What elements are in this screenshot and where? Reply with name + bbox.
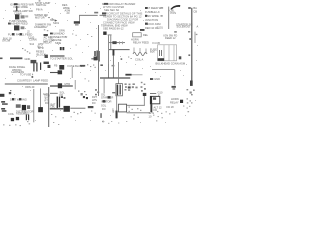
wire H11 bbox=[127, 104, 145, 106]
svg-text:TO STARTER SOL: TO STARTER SOL bbox=[50, 56, 73, 60]
node bars N4 bbox=[83, 96, 88, 99]
svg-text:CONN: CONN bbox=[29, 38, 37, 42]
svg-text:REL: REL bbox=[143, 33, 149, 37]
svg-text:B: B bbox=[113, 109, 115, 113]
svg-text:FD 18: FD 18 bbox=[167, 105, 175, 109]
splice dot 2 bbox=[10, 90, 11, 91]
label LR2 bbox=[150, 77, 160, 81]
speckle MC3 bbox=[72, 34, 92, 46]
wire stub V4 bbox=[194, 32, 196, 43]
dash left of SL1 bbox=[112, 92, 115, 93]
label block TL2 bbox=[13, 9, 33, 15]
speckle LC7 bbox=[85, 78, 90, 81]
label S2 bbox=[94, 12, 98, 14]
splice dot bbox=[32, 76, 34, 78]
wire H9 bbox=[70, 107, 85, 109]
relay K5 bbox=[180, 100, 183, 103]
svg-text:COIL A: COIL A bbox=[135, 58, 144, 62]
wire pair top tie bbox=[108, 34, 112, 35]
svg-text:MTR: MTR bbox=[65, 82, 71, 86]
junction left dash bbox=[91, 58, 94, 60]
horn relay box bbox=[118, 104, 126, 112]
fuse F1 bbox=[16, 6, 17, 11]
starter splice bbox=[64, 106, 70, 112]
arrow lead marks bbox=[45, 16, 53, 20]
speckle BD3 bbox=[129, 107, 142, 120]
label BL2 bbox=[8, 112, 15, 116]
battery cable bars bbox=[57, 97, 61, 109]
node square N1 bbox=[103, 32, 106, 35]
wire V7 bbox=[108, 64, 110, 78]
terminal strip TS2 bbox=[1, 108, 6, 112]
tick left of bus bbox=[188, 54, 190, 56]
label BD2 bbox=[112, 107, 115, 113]
dot right of V4 bbox=[196, 34, 198, 35]
branch ticks bbox=[119, 41, 123, 44]
coil leads bbox=[134, 48, 146, 54]
svg-text:S12: S12 bbox=[30, 42, 35, 46]
svg-text:GND: GND bbox=[25, 57, 31, 61]
wire top horizontal seg A bbox=[79, 14, 98, 16]
top dot TC bbox=[39, 0, 41, 1]
wire V15 bbox=[150, 104, 152, 112]
svg-text:ASSEMBLY: ASSEMBLY bbox=[16, 112, 30, 116]
label block TL1 bbox=[10, 2, 34, 9]
wire branch 1 bbox=[109, 42, 125, 44]
label BC2 bbox=[92, 95, 97, 105]
wire stub bold bbox=[113, 49, 115, 55]
wire V9 bbox=[118, 62, 120, 84]
connector block CB2 bbox=[158, 45, 177, 61]
connector cluster CC1 bbox=[125, 83, 138, 90]
label dots TR4 bbox=[157, 26, 164, 30]
wire V13 tall bbox=[48, 87, 50, 127]
svg-text:MOTOR: MOTOR bbox=[35, 16, 45, 20]
wire V5 bbox=[71, 67, 73, 78]
capacitor bars bbox=[26, 115, 29, 121]
terminal T8 bbox=[150, 78, 153, 80]
terminal T1 bbox=[145, 7, 148, 9]
svg-text:G101: G101 bbox=[157, 26, 164, 30]
wire H3 bbox=[50, 85, 73, 87]
row tick TR-a bbox=[161, 7, 164, 8]
svg-text:JUNCTION: JUNCTION bbox=[145, 18, 158, 22]
speckle LC5 bbox=[78, 91, 87, 96]
svg-text:DASH PANEL: DASH PANEL bbox=[9, 65, 26, 69]
svg-text:S201: S201 bbox=[53, 21, 60, 25]
coil W1 bbox=[133, 52, 147, 55]
label BL1 bbox=[10, 97, 27, 101]
label LL1 bbox=[9, 65, 26, 74]
terminal T4 bbox=[50, 33, 53, 35]
label BC1 bbox=[50, 102, 56, 108]
svg-text:12 G: 12 G bbox=[149, 111, 155, 115]
wire H2 bbox=[50, 72, 60, 74]
alternator box A1 bbox=[150, 96, 160, 104]
label S3 bbox=[59, 28, 65, 32]
dash above MR1 bbox=[174, 31, 177, 32]
wire H7 bbox=[150, 93, 156, 95]
svg-text:FD: FD bbox=[92, 101, 96, 105]
svg-text:SOLENOID: SOLENOID bbox=[177, 25, 191, 29]
wire V11 bbox=[33, 89, 35, 122]
label block TL3 bbox=[8, 19, 28, 25]
label dots TR2 bbox=[170, 9, 177, 16]
wire H4 bbox=[50, 92, 58, 94]
wire vertical V2 main right bus bbox=[191, 8, 193, 85]
terminal T10 bbox=[108, 96, 111, 99]
wire pair vertical bbox=[109, 35, 111, 78]
speckle LC6 bbox=[95, 89, 99, 95]
label column TR bbox=[145, 6, 162, 30]
bus bar B1 bbox=[50, 55, 65, 57]
lamp L1 bbox=[74, 21, 80, 25]
label block TC3 bbox=[34, 23, 51, 29]
svg-text:FLASHER FEED: FLASHER FEED bbox=[8, 22, 28, 26]
ignition module IM1 bbox=[11, 117, 19, 121]
label LC4 bbox=[60, 91, 66, 97]
label block TR3 bbox=[176, 22, 192, 28]
wire stub thin continuation bbox=[112, 56, 114, 79]
coil label bbox=[135, 58, 144, 62]
legend bold item 1 bbox=[104, 3, 108, 5]
label MC1 bbox=[50, 31, 67, 45]
svg-text:FD: FD bbox=[45, 101, 49, 105]
svg-text:BLK: BLK bbox=[150, 50, 155, 54]
label BR1 bbox=[149, 106, 163, 119]
svg-text:FEED 12: FEED 12 bbox=[165, 36, 176, 40]
connector C4 bbox=[44, 62, 49, 64]
speckle BC3 bbox=[51, 111, 96, 126]
node dash N3 bbox=[112, 65, 115, 67]
svg-text:STARTER: STARTER bbox=[101, 96, 113, 100]
svg-text:BLOCK: BLOCK bbox=[37, 52, 46, 56]
connector C2 bbox=[28, 35, 37, 41]
dot above dist bbox=[9, 92, 11, 94]
label MR2 bbox=[150, 47, 157, 53]
fuse block FB2 bbox=[59, 65, 64, 70]
wire K4 drop bbox=[143, 96, 145, 105]
svg-text:SEE PAGE 8A-12: SEE PAGE 8A-12 bbox=[103, 27, 124, 31]
bus wire H5 bbox=[100, 77, 130, 79]
label LL3 long row bbox=[17, 79, 48, 83]
svg-text:FEED WIRE: FEED WIRE bbox=[14, 5, 29, 9]
node dash N2 bbox=[100, 64, 103, 66]
splice S1 bbox=[50, 18, 60, 25]
label right of bus bbox=[193, 6, 197, 14]
svg-text:SEE SEC 8A: SEE SEC 8A bbox=[104, 8, 119, 12]
coil tick bbox=[121, 58, 123, 60]
pins MR bbox=[159, 50, 162, 56]
speckle BR3 bbox=[187, 98, 193, 103]
connector cluster CC2 bbox=[141, 82, 146, 92]
row tick TR-b bbox=[161, 15, 163, 16]
label D1 bbox=[16, 110, 34, 116]
ground G3 bbox=[190, 81, 193, 86]
wire H10 bbox=[127, 112, 150, 114]
svg-text:RELAY FEED: RELAY FEED bbox=[133, 40, 149, 44]
wire V12 bbox=[40, 89, 42, 111]
wire H6 bbox=[152, 69, 175, 71]
label LL2 bbox=[20, 73, 34, 77]
svg-text:MTR: MTR bbox=[38, 46, 44, 50]
speckle LR4 bbox=[187, 89, 195, 95]
label LC1 bbox=[54, 63, 84, 67]
motor M4 bbox=[58, 70, 63, 74]
svg-text:LAMP FEED: LAMP FEED bbox=[33, 79, 48, 83]
arrowhead bbox=[55, 19, 58, 21]
bottom dots TC bbox=[44, 29, 49, 31]
terminal T3 bbox=[145, 23, 148, 25]
svg-text:SWITCH: SWITCH bbox=[36, 3, 46, 7]
wire top horizontal seg B bbox=[100, 14, 107, 16]
speckle BR5 bbox=[153, 106, 190, 122]
module M2 bbox=[36, 50, 46, 57]
speckle MC4 bbox=[128, 57, 132, 60]
wire H8 bbox=[50, 108, 63, 110]
label ML4 bbox=[25, 57, 31, 61]
left edge bold dash bbox=[0, 94, 4, 97]
svg-text:SIDE: SIDE bbox=[55, 41, 61, 45]
label CB2 bottom bbox=[156, 61, 186, 65]
branch connector bbox=[112, 41, 116, 44]
terminal T11 bbox=[103, 100, 106, 103]
connector pins P1 bbox=[36, 8, 43, 12]
terminal T7 bbox=[80, 65, 85, 67]
solenoid SL1 bbox=[116, 84, 123, 96]
resistor ladder R1 bbox=[62, 3, 70, 15]
legend corner dash bbox=[140, 29, 145, 31]
legend bold item 2 bbox=[102, 12, 106, 14]
battery cable swoosh bbox=[171, 5, 181, 10]
wire diagonal speckle bbox=[22, 48, 30, 54]
speckle BL4 bbox=[3, 121, 30, 126]
svg-text:COURTESY: COURTESY bbox=[17, 79, 32, 83]
junction block J1 bbox=[94, 51, 100, 62]
svg-text:FUSIBLE LK: FUSIBLE LK bbox=[145, 10, 160, 14]
solenoid SL2 bbox=[38, 107, 43, 112]
dots under H9 bbox=[74, 112, 82, 114]
label K3 bbox=[43, 36, 54, 45]
terminal dash TL1 bbox=[14, 3, 18, 5]
cable top marks bbox=[61, 96, 66, 99]
connector box CB1 bbox=[133, 33, 142, 37]
wire vertical V1 bbox=[168, 7, 170, 29]
svg-text:GA 2W: GA 2W bbox=[2, 38, 11, 42]
label BR2 bbox=[170, 97, 179, 104]
wire LR1 tail bbox=[132, 74, 143, 76]
label LL5 bbox=[43, 92, 50, 98]
svg-text:RELAY: RELAY bbox=[170, 101, 179, 105]
relay K2 bbox=[14, 25, 24, 30]
svg-text:HORN: HORN bbox=[171, 97, 179, 101]
splice dash LR1 bbox=[125, 74, 131, 76]
bus top tick bbox=[188, 7, 191, 9]
label row ML1 bbox=[8, 32, 32, 36]
fusible link bars bbox=[33, 63, 41, 72]
svg-text:A: A bbox=[197, 25, 199, 29]
label MC2 bbox=[50, 56, 73, 60]
bus tick MR bbox=[189, 38, 191, 40]
svg-text:SOL: SOL bbox=[101, 103, 107, 107]
wire V14 bold segment bbox=[116, 111, 118, 119]
label BR4 bbox=[167, 105, 175, 109]
label LR3 bbox=[158, 90, 163, 97]
terminal strip TS1 bbox=[1, 101, 8, 105]
connector C3 bbox=[31, 60, 37, 63]
module M1 bbox=[38, 42, 44, 50]
terminal T6 bbox=[48, 65, 51, 68]
speckle BD4 bbox=[103, 121, 127, 124]
dash left of bus bbox=[188, 31, 190, 33]
switch SW1 bbox=[12, 33, 14, 35]
terminal T9 bbox=[88, 106, 94, 108]
wire V10 bbox=[174, 70, 176, 86]
relay K3 bbox=[44, 34, 48, 36]
label LC3 bbox=[65, 82, 71, 86]
switch SW2 bbox=[20, 33, 22, 35]
label block TC1 bbox=[35, 1, 50, 7]
wire V6 bbox=[74, 80, 76, 89]
ground strap G1 bbox=[10, 57, 22, 59]
fuse block FB1 bbox=[60, 47, 65, 50]
label CB1 right bbox=[143, 33, 149, 37]
svg-text:CB: CB bbox=[193, 10, 197, 14]
legend footer text bbox=[101, 24, 128, 31]
label LL4 bbox=[25, 85, 35, 89]
svg-text:POS: POS bbox=[171, 11, 177, 15]
legend text block bbox=[102, 2, 143, 25]
wire V14 bbox=[116, 96, 118, 118]
wire drop bbox=[78, 15, 80, 21]
svg-text:ORN 40: ORN 40 bbox=[25, 85, 35, 89]
svg-text:ASSEMBLY: ASSEMBLY bbox=[34, 25, 48, 29]
left edge tab bbox=[0, 58, 3, 60]
svg-text:BA: BA bbox=[193, 6, 197, 10]
label ML3 bbox=[30, 42, 35, 46]
svg-text:FB: FB bbox=[54, 63, 58, 67]
sensor SN1 bbox=[101, 93, 106, 97]
module M3 bbox=[45, 55, 48, 58]
label BD1 bbox=[101, 96, 113, 111]
wire branch 2 bbox=[109, 49, 130, 51]
wire V8 bbox=[103, 78, 105, 93]
distributor D1 bbox=[16, 104, 30, 110]
svg-text:FD: FD bbox=[102, 107, 106, 111]
bus wire H1 bbox=[5, 83, 48, 85]
motor M5 bbox=[58, 83, 62, 88]
switch SW3 bbox=[12, 98, 14, 100]
sensor SN2 bbox=[100, 113, 104, 122]
relay K4 bbox=[143, 93, 147, 96]
terminal T2 bbox=[145, 15, 147, 17]
label ML2 bbox=[2, 36, 12, 42]
ground G2 bbox=[172, 86, 176, 90]
label CB1 pins bbox=[131, 38, 149, 45]
label above C2 bbox=[27, 29, 30, 33]
terminal T5 bbox=[179, 56, 182, 59]
connector C1 bbox=[8, 23, 11, 25]
svg-text:CBL: CBL bbox=[50, 105, 56, 109]
svg-text:BULKHEAD CONN ASM: BULKHEAD CONN ASM bbox=[156, 61, 186, 65]
switch SW4 bbox=[19, 98, 21, 100]
label block TC2 bbox=[35, 13, 48, 20]
svg-text:COIL: COIL bbox=[8, 112, 15, 116]
svg-text:PIN A: PIN A bbox=[36, 8, 43, 12]
label BL3 bbox=[45, 96, 49, 105]
relay K1 bbox=[15, 14, 28, 19]
speckle LC2 bbox=[87, 64, 96, 68]
wire vertical V3 center-right bus bbox=[98, 25, 100, 96]
label dots TR5 bbox=[197, 25, 199, 29]
label F4 bbox=[153, 41, 161, 45]
label MR1 bbox=[164, 33, 178, 39]
